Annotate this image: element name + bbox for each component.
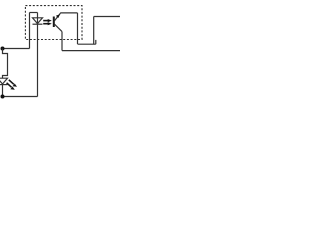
- wire: collector down: [61, 32, 63, 51]
- node A junction dot: [1, 47, 5, 51]
- LED D1 cathode bar: [33, 23, 43, 25]
- LED D2 emission arrow 2: [7, 83, 15, 90]
- wire: anode riser vertical: [29, 13, 31, 49]
- opto light arrow 2: [43, 22, 52, 25]
- wire: up to output: [93, 17, 95, 45]
- wire: bottom rail node B: [3, 96, 38, 98]
- wire: LED D2 cathode to node B: [2, 85, 4, 97]
- LED D1 triangle: [33, 18, 43, 24]
- wire: node A to LED anode riser: [3, 48, 30, 50]
- phototransistor Q1 base bar: [53, 17, 55, 28]
- wire: collector rail to right edge: [62, 50, 120, 52]
- LED D2 emission arrow 1: [9, 80, 17, 87]
- optocoupler U1 dashed outline: [25, 6, 82, 40]
- wire: down right of box: [77, 13, 79, 44]
- LED D2 triangle: [0, 78, 8, 84]
- opto light arrow 1: [43, 19, 52, 22]
- wire: top horizontal into LED D1: [30, 12, 38, 14]
- wire: LED D1 anode lead: [37, 13, 39, 25]
- phototransistor Q1 collector (lower): [55, 24, 63, 31]
- LED D2 cathode bar: [0, 84, 8, 86]
- node B junction dot: [1, 95, 5, 99]
- phototransistor Q1 emitter (upper, arrow out): [55, 13, 61, 20]
- wire: output to right edge: [94, 16, 120, 18]
- wire: LED D1 cathode down to node B rail: [37, 24, 39, 96]
- wire: horizontal y44: [78, 43, 96, 45]
- wire stub at y44 end: [95, 40, 97, 44]
- wire: jog from node A down to LED D2: [3, 49, 8, 79]
- wire: emitter top horizontal: [60, 12, 77, 14]
